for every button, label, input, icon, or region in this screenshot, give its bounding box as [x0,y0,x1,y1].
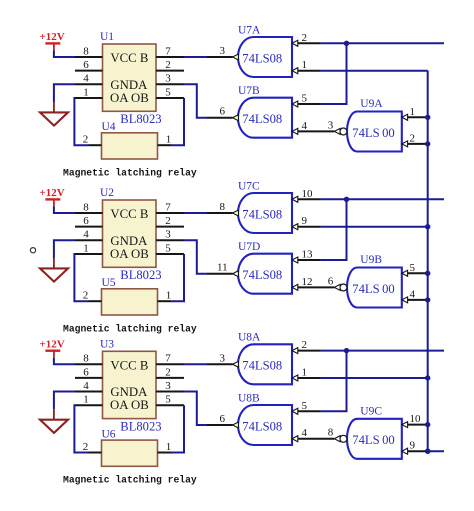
junction on bus [425,141,430,146]
svg-text:OA OB: OA OB [110,247,149,261]
junction on bus [425,375,430,380]
wire +12V to U1 pin 8 [54,51,75,58]
relay chip U2 (BL8023) body [103,200,157,267]
input pin 2 of U9A [402,141,408,147]
power +12V bar symbol [45,198,60,200]
svg-text:74LS08: 74LS08 [242,112,282,126]
svg-text:3: 3 [165,229,171,241]
pin 2 of U5 [89,300,102,302]
junction on bus [425,271,430,276]
input pin 9 of U7C [292,224,298,230]
wire U7A pin 1 to main bus (corner) [321,70,428,72]
svg-text:1: 1 [83,242,89,254]
svg-text:12: 12 [302,276,313,288]
junction on bus [425,449,430,454]
svg-text:U5: U5 [102,277,116,289]
svg-text:GNDA: GNDA [110,78,148,92]
svg-text:BL8023: BL8023 [120,420,161,434]
output pin 6 of U9B [334,284,340,290]
svg-text:8: 8 [328,427,334,439]
wire U7C pin 10 long net to right [321,198,444,200]
svg-text:OA OB: OA OB [110,91,149,105]
svg-text:U7A: U7A [238,24,261,36]
svg-text:U9B: U9B [360,254,382,266]
input pin 13 of U7D [292,257,298,263]
output pin 8 of U9C [334,436,340,442]
svg-text:Magnetic latching relay: Magnetic latching relay [63,475,197,486]
NAND gate U9C (74LS00) body [347,419,402,459]
NAND gate U9A (74LS00) body [347,112,402,152]
svg-text:10: 10 [302,188,314,200]
wire U3 pin 5 to U6 pin 1 [171,405,184,452]
svg-text:U7D: U7D [238,241,260,253]
pin 5 of U2 (right stub) [156,253,184,255]
pin 4 of U2 (left stub) [75,239,103,241]
svg-text:Magnetic latching relay: Magnetic latching relay [63,323,197,334]
svg-text:5: 5 [165,394,171,406]
wire U1 pin 5 to U4 pin 1 [171,98,184,145]
svg-text:VCC B: VCC B [110,359,148,373]
wire U2 pin 3 to U7D output pin 11 [184,240,207,274]
wire U2 pin 4 to ground [54,240,75,258]
output inversion bubble of U9A [340,128,347,135]
AND gate U8B (74LS08) body [238,405,292,445]
ground symbol [53,258,55,268]
wire U3 pin 3 to U8B output pin 6 [184,392,207,426]
svg-text:6: 6 [220,106,226,118]
AND gate U7C (74LS08) body [238,193,292,233]
pin 3 of U1 (right stub) [156,83,184,85]
pin 1 of U4 [158,144,172,146]
svg-text:4: 4 [410,288,416,300]
svg-text:1: 1 [83,394,89,406]
junction (bus bottom) [425,449,430,454]
svg-text:8: 8 [220,201,226,213]
svg-text:9: 9 [302,215,308,227]
junction on bus [425,297,430,302]
relay chip U1 (BL8023) body [103,44,157,111]
svg-text:11: 11 [217,262,228,274]
svg-text:8: 8 [83,353,89,365]
wire U1 pin 4 to ground [54,84,75,102]
svg-text:7: 7 [165,201,171,213]
pin 2 of U2 (right stub) [156,226,184,228]
input pin 10 of U7C [292,196,298,202]
svg-text:2: 2 [165,59,171,71]
svg-text:9: 9 [410,440,416,452]
wire U3 pin 7 to U8A output pin 3 [184,363,207,365]
svg-text:VCC B: VCC B [110,51,148,65]
svg-text:7: 7 [165,45,171,57]
input pin 1 of U7A [292,68,298,74]
pin 7 of U3 (right stub) [156,363,184,365]
pin 5 of U3 (right stub) [156,404,184,406]
svg-text:8: 8 [83,45,89,57]
svg-text:U6: U6 [102,429,116,441]
input pin 10 of U9C [402,422,408,428]
svg-text:6: 6 [83,215,89,227]
svg-text:4: 4 [83,380,89,392]
svg-text:10: 10 [410,413,422,425]
pin 7 of U1 (right stub) [156,56,184,58]
pin 6 of U3 (left stub) [75,377,103,379]
junction on bus [425,422,430,427]
svg-text:U9A: U9A [360,98,383,110]
svg-text:74LS 00: 74LS 00 [352,282,394,296]
wire junction down to U7D pin 13 [321,199,347,260]
svg-text:74LS 00: 74LS 00 [352,433,394,447]
AND gate U7D (74LS08) body [238,254,292,294]
svg-text:6: 6 [83,59,89,71]
svg-text:1: 1 [166,290,172,302]
svg-text:74LS08: 74LS08 [242,419,282,433]
svg-text:2: 2 [165,366,171,378]
svg-text:2: 2 [410,132,416,144]
svg-text:74LS08: 74LS08 [242,51,282,65]
output pin 11 of U7D [207,273,233,275]
output pin 6 of U8B [207,424,233,426]
pin 8 of U2 (left stub) [75,212,103,214]
wire +12V to U2 pin 8 [54,207,75,214]
svg-text:U4: U4 [102,121,116,133]
svg-text:6: 6 [83,366,89,378]
output inversion bubble of U9C [340,435,347,442]
svg-text:5: 5 [302,93,308,105]
relay driver U5 body [102,289,158,315]
pin 8 of U3 (left stub) [75,363,103,365]
relay driver U6 body [102,440,158,466]
output pin 3 of U8A [207,363,233,365]
input pin 1 of U9A [402,114,408,120]
wire U3 pin 1 to U6 pin 2 [74,405,88,452]
node (open connector circle) left of U2 [30,248,35,253]
wire U8A pin 1 to main bus [321,377,428,379]
main vertical bus wire (right side) [427,71,429,452]
svg-text:1: 1 [166,134,172,146]
wire U7A pin 2 long net to right [321,42,444,44]
svg-text:2: 2 [83,441,89,453]
svg-text:U9C: U9C [360,406,382,418]
junction on bus [425,115,430,120]
power +12V bar symbol [45,350,60,352]
input pin 1 of U8A [292,375,298,381]
svg-text:1: 1 [302,367,308,379]
junction on bus [425,224,430,229]
pin 2 of U3 (right stub) [156,377,184,379]
svg-text:BL8023: BL8023 [120,112,161,126]
pin 6 of U1 (left stub) [75,70,103,72]
wire +12V to U3 pin 8 [54,358,75,365]
svg-text:1: 1 [302,59,308,71]
wire junction down to U8B pin 5 [321,351,347,412]
wire U2 pin 7 to U7C output pin 8 [184,212,207,214]
svg-text:5: 5 [165,86,171,98]
wire U8A pin 2 long net to right [321,350,444,352]
input pin 5 of U7B [292,101,298,107]
NAND gate U9B (74LS00) body [347,268,402,308]
svg-text:U8A: U8A [238,332,261,344]
svg-text:5: 5 [165,242,171,254]
svg-text:4: 4 [83,73,89,85]
wire U2 pin 1 to U5 pin 2 [74,254,88,301]
junction [344,197,349,202]
svg-text:3: 3 [220,45,226,57]
pin 4 of U3 (left stub) [75,391,103,393]
svg-text:GNDA: GNDA [110,385,148,399]
output pin 3 of U7A [207,56,233,58]
junction [344,41,349,46]
output inversion bubble of U9B [340,284,347,291]
wire U2 pin 5 to U5 pin 1 [171,254,184,301]
svg-text:VCC B: VCC B [110,207,148,221]
pin 3 of U2 (right stub) [156,239,184,241]
svg-text:3: 3 [165,380,171,392]
svg-text:74LS 00: 74LS 00 [352,126,394,140]
svg-text:1: 1 [83,86,89,98]
relay chip U3 (BL8023) body [103,351,157,418]
svg-text:3: 3 [220,352,226,364]
wire junction down to U7B pin 5 [321,43,347,104]
svg-text:3: 3 [328,119,334,131]
svg-text:74LS08: 74LS08 [242,359,282,373]
svg-text:3: 3 [165,73,171,85]
input pin 4 of U9B [402,297,408,303]
pin 5 of U1 (right stub) [156,97,184,99]
pin 1 of U1 (left stub) [75,97,103,99]
svg-text:U7C: U7C [238,180,260,192]
AND gate U7B (74LS08) body [238,98,292,138]
pin 2 of U1 (right stub) [156,70,184,72]
svg-text:74LS08: 74LS08 [242,268,282,282]
svg-text:2: 2 [165,215,171,227]
input pin 2 of U8A [292,348,298,354]
svg-text:74LS08: 74LS08 [242,207,282,221]
input pin 5 of U8B [292,408,298,414]
output pin 8 of U7C [207,212,233,214]
svg-text:4: 4 [302,427,308,439]
svg-text:U1: U1 [100,31,114,43]
svg-text:U3: U3 [100,338,114,350]
svg-text:6: 6 [328,275,334,287]
wire U1 pin 7 to U7A output pin 3 [184,56,207,58]
power +12V bar symbol [45,42,60,44]
svg-text:GNDA: GNDA [110,234,148,248]
input pin 12 of U7D [292,284,298,290]
svg-text:8: 8 [83,201,89,213]
svg-text:+12V: +12V [40,339,65,351]
svg-text:OA OB: OA OB [110,398,149,412]
AND gate U8A (74LS08) body [238,344,292,384]
input pin 4 of U7B [292,128,298,134]
pin 1 of U2 (left stub) [75,253,103,255]
junction [344,348,349,353]
svg-text:5: 5 [410,262,416,274]
svg-text:Magnetic latching relay: Magnetic latching relay [63,167,197,178]
pin 4 of U1 (left stub) [75,83,103,85]
svg-text:U8B: U8B [238,392,260,404]
svg-text:U7B: U7B [238,85,260,97]
svg-text:BL8023: BL8023 [120,268,161,282]
svg-text:6: 6 [220,413,226,425]
svg-text:4: 4 [302,120,308,132]
pin 3 of U3 (right stub) [156,391,184,393]
output pin 3 of U9A [334,128,340,134]
wire U1 pin 1 to U4 pin 2 [74,98,88,145]
svg-text:2: 2 [83,290,89,302]
relay driver U4 body [102,133,158,159]
svg-text:13: 13 [302,249,314,261]
pin 7 of U2 (right stub) [156,212,184,214]
AND gate U7A (74LS08) body [238,37,292,77]
wire U7C pin 9 to main bus [321,226,428,228]
input pin 2 of U7A [292,40,298,46]
wire U1 pin 3 to U7B output pin 6 [184,84,207,118]
svg-text:7: 7 [165,353,171,365]
pin 1 of U5 [158,300,172,302]
pin 6 of U2 (left stub) [75,226,103,228]
input pin 5 of U9B [402,270,408,276]
wire U3 pin 4 to ground [54,392,75,410]
pin 2 of U6 [89,452,102,454]
svg-text:U2: U2 [100,187,114,199]
svg-text:1: 1 [410,106,416,118]
svg-text:2: 2 [302,32,308,44]
svg-text:4: 4 [83,229,89,241]
ground symbol [53,102,55,112]
pin 8 of U1 (left stub) [75,56,103,58]
pin 1 of U6 [158,452,172,454]
pin 2 of U4 [89,144,102,146]
bus tail wire bottom right [428,450,444,452]
svg-text:+12V: +12V [40,31,65,43]
ground symbol [53,409,55,419]
svg-text:2: 2 [302,339,308,351]
svg-text:+12V: +12V [40,187,65,199]
svg-text:5: 5 [302,400,308,412]
svg-text:1: 1 [166,441,172,453]
svg-text:2: 2 [83,134,89,146]
input pin 9 of U9C [402,448,408,454]
output pin 6 of U7B [207,117,233,119]
pin 1 of U3 (left stub) [75,404,103,406]
input pin 4 of U8B [292,436,298,442]
